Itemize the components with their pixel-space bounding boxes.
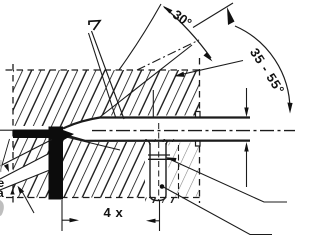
gate orifice wedge (63, 130, 74, 141)
tail of a-dimension leader (22, 191, 35, 214)
arrow near a (18, 186, 25, 194)
angle extension line A (left leg of 30 deg) (119, 4, 161, 70)
runner diameter dimension arrow bottom (246, 145, 248, 187)
gate cone upper edge (100, 45, 192, 117)
pin band (148, 155, 170, 159)
leader from 7 (line P) (92, 31, 125, 119)
block dashed border: right edge (gap at runner) (199, 58, 201, 203)
gate axis dash-dot line (137, 40, 199, 70)
scan smudge bottom-left (0, 200, 4, 216)
gate land parallel line S3 (0, 171, 49, 191)
block dashed border: top edge (6, 69, 200, 71)
block dashed border: bottom edge (6, 197, 203, 199)
ejector pin body (150, 143, 166, 195)
runner top line (63, 118, 250, 129)
bottom-left corner tick arrow (10, 189, 14, 195)
svg-text:4 x: 4 x (104, 205, 124, 220)
pocket dashed boundary right of pin (178, 145, 180, 202)
face notch bottom (196, 141, 201, 146)
scan smudge left edge (0, 160, 2, 172)
corner line with arrow (through block corner) (176, 61, 244, 76)
light hatch in pocket (169, 143, 200, 197)
leader from 7 (line Q) (89, 33, 117, 119)
runner bottom line (63, 135, 250, 141)
svg-text:a: a (0, 186, 4, 200)
pin dot (160, 184, 165, 189)
runner centerline dash-dot (92, 130, 295, 132)
4x dimension: right extension line (159, 200, 161, 231)
pin center dashed line (158, 123, 160, 200)
gate land parallel line S1 (0, 140, 52, 167)
block dashed border: left edge (12, 64, 14, 203)
35-55 deg dimension arc (235, 26, 290, 110)
ejector pin: counterbore lips (146, 139, 171, 141)
label 7 (89, 21, 100, 30)
gate wedge line (66, 137, 120, 150)
leader 2 from pin dot to lower right (163, 187, 273, 235)
hatched mold block with white holes (channel, pin, lower-right pocket, strip above part flange) (13, 70, 199, 203)
white band between S1 and S2 (0, 154, 49, 190)
4x left arrow (62, 219, 72, 221)
4x dimension: left extension line (61, 200, 63, 231)
arrow near e (4, 164, 9, 172)
vertical line above runner near pin (152, 90, 154, 118)
4x right arrow (152, 220, 160, 222)
molded part: black T flange (13, 130, 63, 139)
gate land parallel line S2 (0, 154, 48, 179)
leader to e label (0, 139, 10, 172)
steep leg of 35-55 deg angle (193, 3, 233, 28)
thin line left of flange (0, 129, 13, 131)
molded part: black T rib (49, 127, 64, 200)
leader 1 from pin band to lower right (167, 158, 287, 202)
runner diameter dimension arrow top (246, 88, 248, 114)
face notch top (196, 112, 201, 118)
30 deg dimension arc (164, 7, 211, 58)
pin dome bottom (150, 195, 166, 201)
